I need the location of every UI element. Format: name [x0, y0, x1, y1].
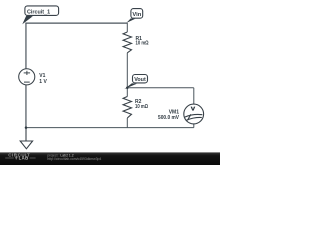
- svg-text:VM1: VM1: [169, 110, 180, 116]
- svg-text:http://circuitlab.com/c4593dkm: http://circuitlab.com/c4593dkmw3p4: [47, 157, 101, 161]
- node junction dot Vout net: [126, 87, 129, 90]
- voltmeter VM1: [184, 104, 204, 124]
- wire left vertical from V1 bottom to ground node: [25, 85, 27, 128]
- svg-text:LAB: LAB: [19, 156, 29, 161]
- wire Vout horizontal to voltmeter: [127, 87, 194, 89]
- resistor R2: [123, 97, 131, 119]
- node junction dot ground net: [25, 126, 28, 129]
- wire R1 bottom lead to Vout node: [126, 53, 128, 88]
- svg-text:Vin: Vin: [132, 12, 141, 18]
- wire voltmeter bottom lead: [193, 124, 195, 128]
- wire right vertical R1 top lead: [126, 23, 128, 32]
- svg-text:Circuit_1: Circuit_1: [27, 9, 50, 15]
- svg-text:500.0 mV: 500.0 mV: [158, 115, 180, 121]
- node label Vin: [126, 9, 143, 24]
- voltage source V1: [19, 69, 35, 85]
- node label Vout: [124, 75, 147, 90]
- wire R2 top lead from Vout node: [126, 88, 128, 97]
- node label Circuit_1: [22, 6, 58, 24]
- svg-text:1 V: 1 V: [39, 79, 47, 85]
- svg-text:10 mΩ: 10 mΩ: [136, 40, 149, 45]
- wire left vertical from top corner to V1 top: [25, 23, 27, 69]
- svg-text:Vout: Vout: [134, 77, 146, 83]
- resistor R1: [123, 32, 131, 53]
- wire R2 bottom lead: [126, 118, 128, 128]
- wire bottom horizontal ground net: [26, 127, 194, 129]
- VM1 meter letter V: [191, 107, 196, 111]
- footer logo CIRCUIT LAB: [5, 152, 35, 160]
- wire top horizontal Vin net: [25, 22, 127, 24]
- ground: [20, 128, 32, 149]
- wire voltmeter top lead: [193, 88, 195, 104]
- svg-text:10 mΩ: 10 mΩ: [135, 103, 148, 108]
